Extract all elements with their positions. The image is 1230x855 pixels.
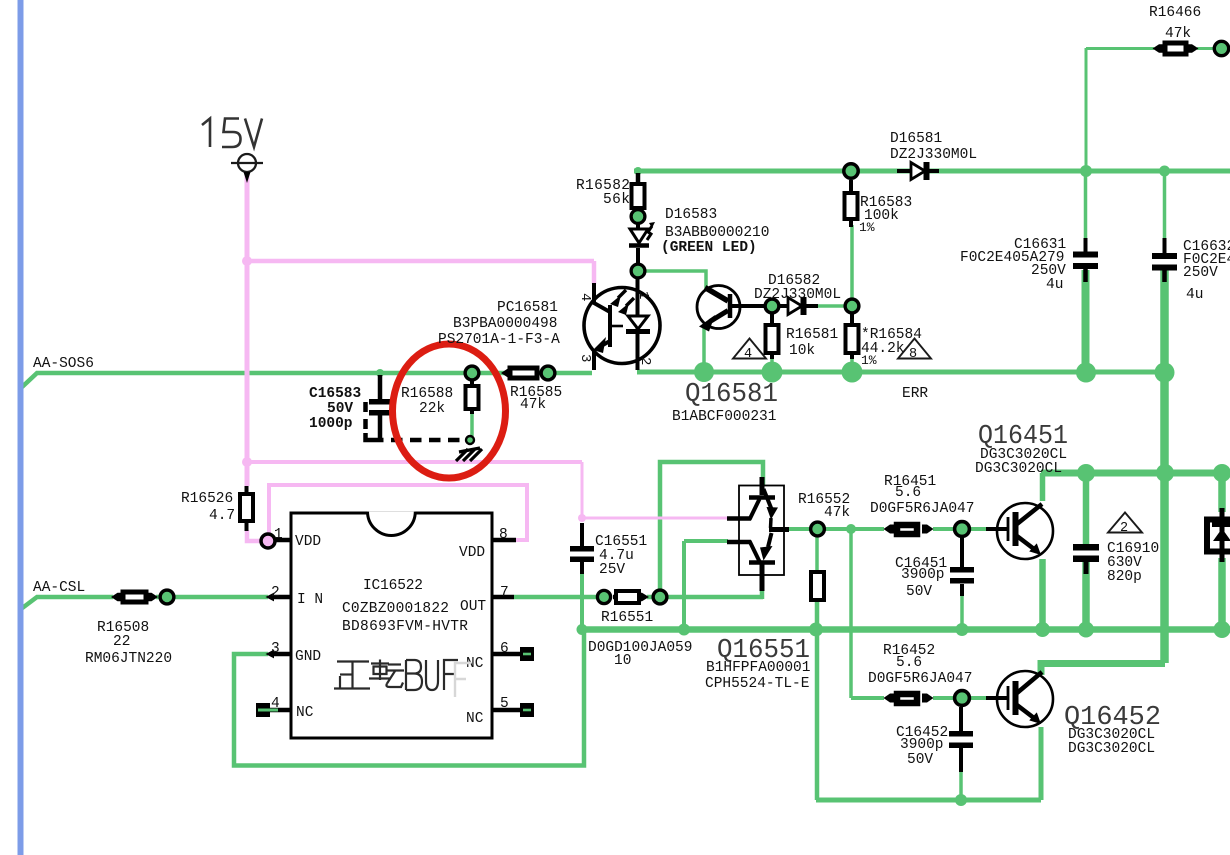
svg-text:1: 1 <box>635 291 651 299</box>
svg-text:D0GF5R6JA047: D0GF5R6JA047 <box>868 671 972 687</box>
svg-text:Q16581: Q16581 <box>685 380 778 410</box>
svg-text:50V: 50V <box>327 401 353 417</box>
svg-text:5: 5 <box>500 696 509 712</box>
svg-text:DZ2J330M0L: DZ2J330M0L <box>890 147 977 163</box>
svg-text:R16588: R16588 <box>401 386 453 402</box>
svg-text:5.6: 5.6 <box>896 655 922 671</box>
svg-text:B1ABCF000231: B1ABCF000231 <box>672 409 776 425</box>
svg-text:AA-CSL: AA-CSL <box>33 580 85 596</box>
svg-text:R16466: R16466 <box>1149 5 1201 21</box>
svg-text:22k: 22k <box>419 401 445 417</box>
svg-text:10k: 10k <box>789 343 815 359</box>
svg-text:3900p: 3900p <box>900 737 944 753</box>
svg-text:3900p: 3900p <box>901 567 945 583</box>
svg-text:2: 2 <box>1120 521 1128 536</box>
svg-text:1%: 1% <box>861 353 877 368</box>
svg-text:DG3C3020CL: DG3C3020CL <box>1068 741 1155 757</box>
svg-text:RM06JTN220: RM06JTN220 <box>85 651 172 667</box>
svg-text:10: 10 <box>614 653 631 669</box>
svg-text:R16526: R16526 <box>181 491 233 507</box>
svg-text:IC16522: IC16522 <box>363 578 423 594</box>
svg-text:VDD: VDD <box>459 545 485 561</box>
svg-text:7: 7 <box>500 585 509 601</box>
svg-text:B3ABB0000210: B3ABB0000210 <box>665 225 769 241</box>
svg-text:2: 2 <box>271 585 280 601</box>
svg-text:ERR: ERR <box>902 386 928 402</box>
svg-text:8: 8 <box>499 527 508 543</box>
svg-text:2: 2 <box>637 357 653 365</box>
svg-text:50V: 50V <box>906 584 932 600</box>
svg-text:C0ZBZ0001822: C0ZBZ0001822 <box>342 601 449 617</box>
svg-text:25V: 25V <box>599 562 625 578</box>
svg-text:D16581: D16581 <box>890 131 942 147</box>
svg-text:8: 8 <box>909 347 917 362</box>
svg-text:56k: 56k <box>603 192 630 208</box>
svg-text:GND: GND <box>295 649 321 665</box>
svg-text:CPH5524-TL-E: CPH5524-TL-E <box>705 676 809 692</box>
svg-text:C16583: C16583 <box>309 386 361 402</box>
svg-text:47k: 47k <box>1165 26 1191 42</box>
svg-text:1000p: 1000p <box>309 416 353 432</box>
svg-text:47k: 47k <box>520 397 546 413</box>
svg-text:D0GF5R6JA047: D0GF5R6JA047 <box>870 501 974 517</box>
svg-text:PC16581: PC16581 <box>497 300 558 316</box>
svg-text:PS2701A-1-F3-A: PS2701A-1-F3-A <box>438 332 560 348</box>
svg-text:4: 4 <box>744 347 752 362</box>
svg-text:NC: NC <box>296 705 314 721</box>
svg-text:I N: I N <box>297 592 323 608</box>
svg-text:4: 4 <box>271 696 280 712</box>
svg-text:DG3C3020CL: DG3C3020CL <box>975 461 1062 477</box>
svg-text:5.6: 5.6 <box>895 485 921 501</box>
svg-text:4u: 4u <box>1046 277 1063 293</box>
svg-text:NC: NC <box>466 711 484 727</box>
svg-text:R16581: R16581 <box>786 327 838 343</box>
svg-text:820p: 820p <box>1107 569 1142 585</box>
svg-text:DZ2J330M0L: DZ2J330M0L <box>754 287 841 303</box>
svg-text:1%: 1% <box>859 220 875 235</box>
svg-text:4: 4 <box>577 293 593 301</box>
svg-text:BD8693FVM-HVTR: BD8693FVM-HVTR <box>342 619 468 635</box>
svg-text:D0GD100JA059: D0GD100JA059 <box>588 640 692 656</box>
svg-text:1: 1 <box>274 527 283 543</box>
svg-text:4u: 4u <box>1186 287 1203 303</box>
svg-text:50V: 50V <box>907 752 933 768</box>
svg-text:(GREEN LED): (GREEN LED) <box>661 240 757 256</box>
svg-text:47k: 47k <box>824 505 850 521</box>
svg-text:B1HFPFA00001: B1HFPFA00001 <box>706 660 810 676</box>
svg-text:3: 3 <box>577 354 593 362</box>
svg-text:B3PBA0000498: B3PBA0000498 <box>453 316 557 332</box>
svg-text:VDD: VDD <box>295 534 321 550</box>
svg-text:AA-SOS6: AA-SOS6 <box>33 356 94 372</box>
svg-text:250V: 250V <box>1183 265 1218 281</box>
svg-text:R16551: R16551 <box>601 610 653 626</box>
svg-text:22: 22 <box>113 634 130 650</box>
svg-text:3: 3 <box>271 641 280 657</box>
svg-text:OUT: OUT <box>460 599 486 615</box>
svg-text:6: 6 <box>500 641 509 657</box>
svg-text:4.7: 4.7 <box>209 508 235 524</box>
svg-text:D16583: D16583 <box>665 207 717 223</box>
